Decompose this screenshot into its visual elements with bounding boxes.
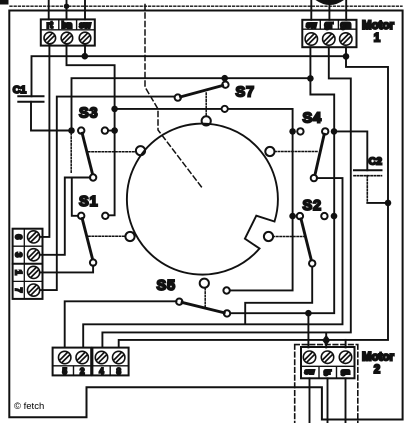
junction net C / S2-left: [289, 213, 296, 220]
svg-text:S2: S2: [303, 198, 322, 214]
S2 lever end circle: [309, 260, 315, 266]
screw X1-2: [61, 32, 73, 44]
crossing marker circle on net C: [222, 106, 228, 112]
wire M1-sw down to S4/S2/S5 right rail: [227, 47, 334, 347]
svg-text:2: 2: [374, 364, 380, 376]
terminal block Motor1 sw gr gn: [302, 20, 356, 47]
svg-text:bn: bn: [62, 20, 73, 30]
junction X1-sw / net A: [82, 53, 89, 60]
switch S5: [176, 299, 230, 317]
wire M2-sw down: [309, 378, 311, 423]
switch S1: [78, 213, 109, 260]
svg-text:rt: rt: [47, 20, 53, 30]
arrow into Motor2 gr: [322, 335, 330, 346]
cam disc: [127, 124, 278, 275]
dashed axis line: [145, 5, 202, 188]
screw T3: [27, 249, 39, 261]
wire C1 bottom to S3 left: [31, 102, 72, 131]
terminal block left 6 3 1 7: [13, 229, 43, 299]
svg-text:S3: S3: [79, 106, 98, 122]
switch S4: [297, 128, 328, 175]
svg-text:sw: sw: [79, 20, 91, 30]
screw X1-3: [79, 32, 91, 44]
wire net E: terminal7 / S7-left: [39, 97, 175, 291]
junction C2 / net A: [385, 200, 392, 207]
junction net B / S3-left: [68, 127, 75, 134]
screw T5: [58, 351, 70, 363]
wire M2-gn down: [345, 378, 347, 423]
screw M1-gn: [340, 33, 352, 45]
svg-text:S1: S1: [79, 194, 98, 210]
wire M1 gn up: [345, 0, 347, 20]
screw M2-gr: [321, 351, 333, 363]
switch S7: [175, 82, 229, 101]
wire sw up: [84, 0, 86, 19]
junction S2-right rail: [331, 213, 338, 220]
cam contact lower-left: [125, 232, 134, 241]
cam contact bottom: [200, 279, 209, 288]
screw M2-sw: [303, 351, 315, 363]
screw T6: [27, 231, 39, 243]
wire M1 sw up: [310, 0, 312, 20]
junction bn top: [64, 3, 69, 8]
cam contact in notch: [264, 232, 273, 241]
cam contact top: [202, 116, 211, 125]
capacitor C1: [18, 96, 43, 102]
wire M2-gn stub: [345, 340, 347, 348]
wire net H: S1 lever / terminal1: [90, 259, 96, 265]
dotted follower S1: [89, 235, 125, 237]
wire net K: terminal4 / M1-gr / M2-gr: [102, 47, 350, 347]
screw M1-gr: [323, 33, 335, 45]
terminal block X1 rt bn sw: [41, 19, 95, 45]
svg-text:gr: gr: [324, 367, 332, 376]
screw T8: [113, 351, 125, 363]
screw M2-gn: [339, 351, 351, 363]
wire bn up: [66, 0, 68, 19]
wire C2 top to S4-right junction: [334, 131, 367, 170]
junction M2-sw / S5-right: [305, 310, 312, 317]
switch S2: [297, 213, 328, 261]
svg-text:sw: sw: [306, 21, 317, 30]
wire rt up: [48, 0, 50, 19]
dotted follower S5: [204, 289, 206, 309]
screw T7: [27, 284, 39, 296]
dotted follower S3: [89, 151, 136, 153]
svg-text:Motor: Motor: [362, 20, 394, 32]
svg-text:gr: gr: [324, 20, 333, 30]
wire net J: S4 lever / terminal2 / S2 lever: [311, 175, 317, 181]
wire C2 bottom (dotted): [366, 176, 368, 203]
svg-text:3: 3: [14, 252, 24, 257]
junction net C / S4-left: [289, 128, 296, 135]
junction net C / S3-right: [111, 127, 118, 134]
wire net C: X1-bn / S3-right / S1-right / S4-left / S2-left / S5-upper: [67, 46, 293, 291]
svg-text:4: 4: [99, 367, 104, 376]
terminal block bottom 5 2 4 8: [53, 348, 129, 376]
screw T2: [76, 351, 88, 363]
svg-text:Motor: Motor: [362, 352, 394, 364]
junction M1-gn / net A: [343, 53, 350, 60]
svg-text:6: 6: [14, 234, 24, 239]
svg-text:5: 5: [62, 367, 67, 376]
svg-text:S5: S5: [157, 278, 176, 294]
screw T1: [27, 266, 39, 278]
wire net I: terminal5 / S5-left: [65, 301, 177, 347]
junction S4-right rail: [331, 128, 338, 135]
screw X1-1: [44, 32, 56, 44]
svg-text:C2: C2: [369, 156, 383, 168]
dotted follower S7: [205, 93, 207, 116]
wire stub S7-right contact: [224, 78, 226, 82]
junction net C upper: [111, 106, 118, 113]
wire net A: X1-sw / C1 top / M1-gn: [32, 46, 389, 348]
junction net B / M1-sw: [307, 75, 314, 82]
svg-text:C1: C1: [13, 84, 27, 96]
svg-text:7: 7: [14, 288, 24, 293]
svg-text:8: 8: [116, 367, 121, 376]
screw T4: [95, 351, 107, 363]
svg-text:S7: S7: [236, 85, 255, 101]
corner black mark: [0, 0, 9, 5]
dotted link below S3-left junction: [70, 134, 72, 174]
switch S3: [78, 127, 108, 174]
wire M2-gr down: [327, 378, 329, 423]
svg-text:sw: sw: [304, 367, 314, 376]
wire net B: M1-sw / S7-right / S3-left rail: [72, 78, 311, 130]
svg-text:S4: S4: [303, 111, 322, 127]
dashed enclosure Motor 2: [295, 345, 358, 423]
cam contact upper-left: [136, 146, 145, 155]
svg-text:1: 1: [374, 33, 381, 45]
cam contact upper-right: [265, 147, 274, 156]
wire net F: X1-rt / terminal6: [39, 46, 49, 237]
top dotted border line: [10, 5, 402, 7]
capacitor C2: [354, 170, 382, 175]
dotted follower S4: [275, 151, 318, 153]
svg-text:gn: gn: [341, 367, 351, 376]
terminal block Motor2 sw gr gn: [301, 347, 355, 378]
svg-text:© fetch: © fetch: [14, 401, 44, 412]
wire net G: S3 lever / terminal3 / S1 pivot: [90, 174, 96, 180]
junction net B / S7-right: [221, 75, 228, 82]
svg-text:gn: gn: [340, 20, 351, 30]
wire M1 gr up: [328, 0, 330, 20]
svg-text:1: 1: [14, 270, 24, 275]
motor M1 symbol (clipped at top edge): [316, 0, 345, 5]
svg-text:2: 2: [80, 367, 85, 376]
dotted follower S2: [273, 236, 305, 238]
screw M1-sw: [305, 33, 317, 45]
S5 upper contact: [223, 287, 229, 293]
